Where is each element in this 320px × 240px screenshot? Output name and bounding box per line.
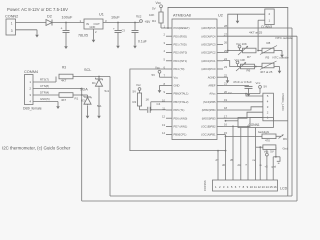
svg-text:(ADC0)PC0: (ADC0)PC0 [201, 67, 216, 71]
svg-text:PD5 (T1): PD5 (T1) [174, 108, 185, 112]
svg-text:10K: 10K [149, 13, 154, 17]
svg-text:ATMEGA8: ATMEGA8 [173, 14, 191, 18]
svg-text:0.1uF: 0.1uF [138, 40, 147, 44]
svg-text:4K7 at 25: 4K7 at 25 [249, 30, 263, 34]
svg-text:3: 3 [11, 29, 13, 33]
svg-text:+: + [113, 27, 115, 31]
svg-text:PD4 (T0): PD4 (T0) [174, 67, 185, 71]
svg-text:(SCK)PB5: (SCK)PB5 [203, 100, 216, 104]
svg-text:(MISO)PB4: (MISO)PB4 [202, 108, 216, 112]
svg-text:AVcc: AVcc [209, 92, 216, 96]
svg-text:PD1 (TXD): PD1 (TXD) [174, 43, 187, 47]
svg-text:R1: R1 [75, 97, 79, 101]
svg-text:NTC outside: NTC outside [273, 56, 289, 60]
svg-text:Vcc: Vcc [136, 83, 141, 87]
svg-text:DTR(4): DTR(4) [40, 91, 49, 95]
svg-text:R2: R2 [133, 100, 137, 104]
svg-text:Power: AC 8-12V or DC 7.5-16V: Power: AC 8-12V or DC 7.5-16V [7, 7, 68, 12]
svg-text:4K7: 4K7 [61, 98, 67, 102]
svg-text:rw: rw [253, 158, 256, 162]
svg-text:PROG_LCD: PROG_LCD [281, 94, 285, 112]
svg-text:GND(5): GND(5) [40, 97, 50, 101]
svg-text:D1: D1 [92, 81, 96, 85]
svg-text:100uF: 100uF [62, 16, 73, 20]
svg-text:13: 13 [162, 123, 165, 127]
svg-text:47nF or 0.5uF: 47nF or 0.5uF [233, 80, 252, 84]
svg-text:+5: +5 [265, 165, 269, 169]
svg-text:(ADC1)PC1: (ADC1)PC1 [201, 59, 216, 63]
svg-text:GND: GND [174, 84, 180, 88]
svg-text:PD0 (RXD): PD0 (RXD) [174, 34, 188, 38]
svg-text:R3: R3 [62, 66, 66, 70]
svg-text:15: 15 [224, 131, 227, 135]
svg-text:gnd: gnd [272, 165, 277, 169]
svg-text:5V: 5V [133, 90, 137, 94]
svg-text:I2C thermometer, (c) Guido Soc: I2C thermometer, (c) Guido Socher [2, 146, 71, 151]
svg-text:C4: C4 [157, 102, 161, 106]
svg-text:(ADC5)PC5: (ADC5)PC5 [201, 26, 216, 30]
svg-text:23: 23 [224, 65, 227, 69]
svg-text:SCL: SCL [84, 68, 91, 72]
svg-text:11: 11 [254, 185, 257, 189]
svg-text:10uF: 10uF [111, 16, 120, 20]
svg-text:78L05: 78L05 [78, 34, 88, 38]
svg-text:26: 26 [224, 41, 227, 45]
svg-text:5V: 5V [152, 73, 156, 77]
svg-text:Vcc: Vcc [256, 81, 261, 85]
svg-text:R8: R8 [267, 41, 271, 45]
svg-text:12: 12 [162, 115, 165, 119]
svg-text:470: 470 [265, 139, 270, 143]
svg-text:PB7(XTAL2): PB7(XTAL2) [174, 100, 189, 104]
svg-text:Gnd: Gnd [283, 147, 289, 151]
svg-text:PD3 (INT1): PD3 (INT1) [174, 59, 188, 63]
svg-text:4K7 at 25: 4K7 at 25 [260, 70, 273, 74]
svg-text:R9: R9 [283, 137, 287, 141]
svg-text:PD6 (AIN0): PD6 (AIN0) [174, 116, 188, 120]
svg-text:PD2 (INT0): PD2 (INT0) [174, 51, 188, 55]
svg-text:U2: U2 [218, 14, 223, 18]
svg-text:GND: GND [90, 25, 96, 29]
svg-text:R7: R7 [247, 55, 251, 59]
svg-text:PB6(XTAL1): PB6(XTAL1) [174, 92, 189, 96]
svg-text:CONN6: CONN6 [203, 180, 207, 191]
svg-text:D2: D2 [47, 15, 52, 19]
svg-text:4K7: 4K7 [61, 79, 67, 83]
svg-text:NTC outside: NTC outside [276, 36, 293, 40]
svg-text:CONN2: CONN2 [5, 15, 18, 19]
svg-text:COMM4: COMM4 [24, 70, 38, 74]
svg-text:+: + [61, 27, 63, 31]
svg-text:5V: 5V [264, 85, 268, 89]
svg-text:R5: R5 [266, 56, 270, 60]
svg-text:R6: R6 [247, 69, 251, 73]
svg-text:CTS(8): CTS(8) [40, 84, 49, 88]
svg-text:+5V: +5V [145, 20, 152, 24]
svg-text:RTS(7): RTS(7) [40, 78, 49, 82]
svg-text:CONN3: CONN3 [261, 25, 272, 29]
svg-text:Vcc 10K: Vcc 10K [236, 42, 247, 46]
svg-text:LCD: LCD [280, 187, 288, 191]
svg-text:R4: R4 [152, 19, 156, 23]
svg-text:5v1: 5v1 [97, 104, 102, 108]
svg-text:AGND: AGND [208, 75, 216, 79]
svg-text:(MOSI)PB3: (MOSI)PB3 [202, 116, 216, 120]
svg-text:1: 1 [11, 21, 13, 25]
svg-text:16: 16 [273, 185, 277, 189]
svg-text:PC6(RESET): PC6(RESET) [174, 26, 190, 30]
svg-text:PD7 (AIN1): PD7 (AIN1) [174, 125, 188, 129]
svg-text:C3: C3 [122, 29, 126, 33]
svg-text:(OC1B)PB2: (OC1B)PB2 [201, 125, 216, 129]
svg-text:backlight: backlight [258, 130, 269, 134]
svg-text:U1: U1 [99, 13, 104, 17]
svg-text:DB9_female: DB9_female [23, 107, 42, 111]
svg-text:Vcc: Vcc [136, 15, 142, 19]
svg-text:(ADC2)PC2: (ADC2)PC2 [201, 51, 216, 55]
svg-text:Vcc: Vcc [174, 75, 179, 79]
svg-text:PB0(ICP1): PB0(ICP1) [174, 133, 187, 137]
svg-text:C2: C2 [228, 91, 232, 95]
svg-text:10: 10 [250, 185, 254, 189]
svg-text:1K: 1K [146, 98, 150, 102]
svg-text:AREF: AREF [208, 84, 216, 88]
svg-text:5V: 5V [270, 150, 274, 154]
svg-text:(OC1A)PB1: (OC1A)PB1 [201, 133, 216, 137]
svg-text:5V: 5V [152, 7, 156, 11]
svg-text:14: 14 [162, 131, 165, 135]
svg-text:(ADC3)PC3: (ADC3)PC3 [201, 43, 216, 47]
svg-text:5v1: 5v1 [105, 89, 110, 93]
svg-text:(ADC4)PC4: (ADC4)PC4 [201, 34, 216, 38]
